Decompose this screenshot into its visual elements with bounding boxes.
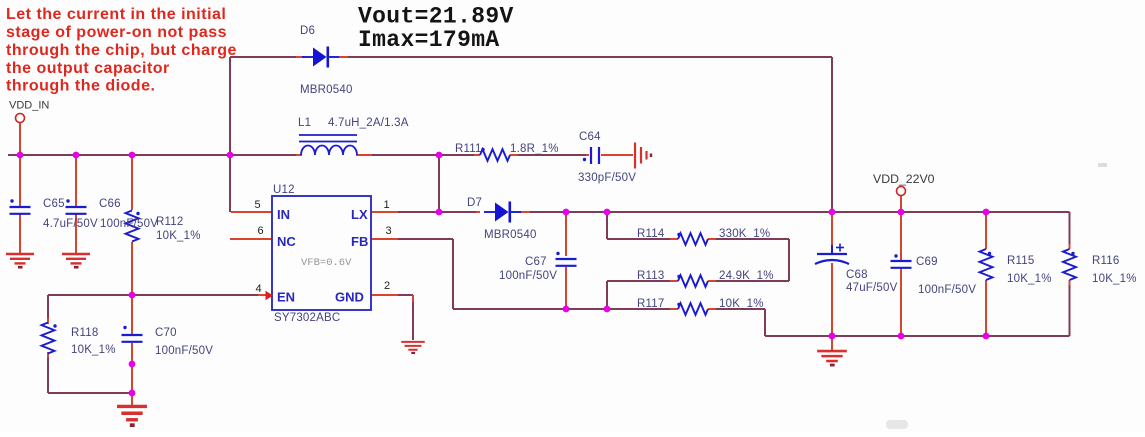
- svg-text:C69: C69: [916, 256, 938, 268]
- svg-text:10K_1%: 10K_1%: [71, 344, 116, 356]
- svg-text:stage of power-on not pass: stage of power-on not pass: [6, 24, 227, 41]
- svg-text:3: 3: [385, 225, 391, 237]
- svg-text:D6: D6: [300, 25, 315, 37]
- svg-text:through the diode.: through the diode.: [6, 78, 155, 95]
- svg-text:IN: IN: [277, 207, 290, 222]
- svg-text:C65: C65: [43, 198, 65, 210]
- svg-text:SY7302ABC: SY7302ABC: [274, 312, 340, 324]
- svg-text:MBR0540: MBR0540: [300, 84, 353, 96]
- svg-text:Vout=21.89V: Vout=21.89V: [358, 4, 514, 30]
- svg-text:R112: R112: [156, 216, 183, 228]
- svg-text:U12: U12: [273, 184, 295, 196]
- svg-text:GND: GND: [335, 290, 364, 305]
- svg-text:100nF/50V: 100nF/50V: [100, 218, 158, 230]
- svg-text:EN: EN: [277, 290, 295, 305]
- svg-text:47uF/50V: 47uF/50V: [846, 282, 898, 294]
- svg-text:10K_1%: 10K_1%: [719, 298, 764, 310]
- svg-text:R115: R115: [1007, 255, 1034, 267]
- svg-text:10K_1%: 10K_1%: [1092, 273, 1137, 285]
- svg-text:100nF/50V: 100nF/50V: [155, 345, 213, 357]
- svg-text:330pF/50V: 330pF/50V: [578, 172, 636, 184]
- svg-text:R116: R116: [1092, 255, 1119, 267]
- svg-text:LX: LX: [351, 207, 368, 222]
- svg-text:R111: R111: [455, 143, 482, 155]
- svg-text:330K_1%: 330K_1%: [719, 228, 770, 240]
- svg-text:L1: L1: [298, 117, 311, 129]
- svg-text:1.8R_1%: 1.8R_1%: [510, 143, 559, 155]
- svg-text:10K_1%: 10K_1%: [1007, 273, 1052, 285]
- svg-text:C68: C68: [846, 269, 868, 281]
- svg-text:Imax=179mA: Imax=179mA: [358, 27, 500, 53]
- svg-text:100nF/50V: 100nF/50V: [499, 270, 557, 282]
- svg-text:the output capacitor: the output capacitor: [6, 60, 170, 77]
- svg-text:2: 2: [384, 280, 390, 292]
- svg-text:Let the current in the initial: Let the current in the initial: [6, 6, 226, 23]
- svg-text:FB: FB: [351, 234, 368, 249]
- svg-text:R114: R114: [637, 228, 665, 240]
- svg-text:R113: R113: [637, 270, 664, 282]
- svg-text:C66: C66: [99, 198, 121, 210]
- svg-text:through the chip, but charge: through the chip, but charge: [6, 42, 237, 59]
- svg-text:5: 5: [254, 199, 260, 211]
- svg-text:NC: NC: [277, 234, 296, 249]
- svg-text:4: 4: [255, 283, 261, 295]
- svg-text:10K_1%: 10K_1%: [156, 230, 201, 242]
- svg-text:MBR0540: MBR0540: [484, 229, 537, 241]
- svg-text:24.9K_1%: 24.9K_1%: [719, 270, 774, 282]
- svg-text:C67: C67: [525, 256, 547, 268]
- svg-text:R117: R117: [637, 298, 664, 310]
- svg-text:VDD_IN: VDD_IN: [9, 100, 49, 112]
- svg-text:4.7uH_2A/1.3A: 4.7uH_2A/1.3A: [328, 117, 409, 129]
- svg-text:C64: C64: [579, 131, 601, 143]
- svg-text:100nF/50V: 100nF/50V: [918, 284, 976, 296]
- svg-text:C70: C70: [155, 327, 177, 339]
- svg-text:R118: R118: [71, 327, 98, 339]
- svg-text:1: 1: [383, 199, 389, 211]
- svg-text:4.7uF/50V: 4.7uF/50V: [43, 218, 98, 230]
- svg-text:VDD_22V0: VDD_22V0: [873, 172, 935, 186]
- svg-text:VFB=0.6V: VFB=0.6V: [301, 257, 352, 269]
- svg-text:6: 6: [257, 225, 263, 237]
- svg-text:D7: D7: [467, 197, 482, 209]
